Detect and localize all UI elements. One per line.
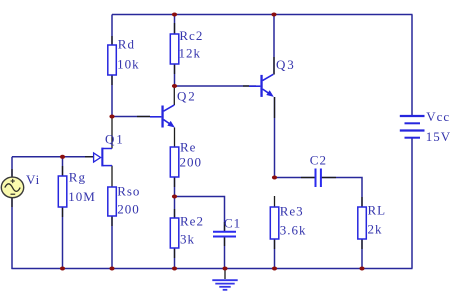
battery Vcc bbox=[400, 116, 425, 138]
svg-text:3.6k: 3.6k bbox=[280, 223, 307, 238]
wire Rd top pin bbox=[111, 15, 113, 46]
wire Q2 emitter to Re bbox=[174, 128, 176, 148]
resistor Rc2 bbox=[170, 34, 179, 64]
node Re C1 bbox=[172, 195, 177, 199]
node Q1 drain bbox=[109, 115, 114, 119]
svg-text:Rd: Rd bbox=[118, 36, 135, 51]
wire Rc2 top pin bbox=[174, 15, 176, 35]
wire Re bottom to node bbox=[174, 177, 176, 197]
capacitor C1 bbox=[213, 232, 236, 237]
svg-text:200: 200 bbox=[180, 155, 203, 170]
wire Re2 bottom pin bbox=[174, 248, 176, 269]
label RL value bbox=[368, 203, 387, 237]
wire Q3 emitter to node bbox=[274, 97, 276, 178]
label Re value bbox=[180, 140, 203, 170]
wire Re3 top pin bbox=[274, 196, 276, 207]
wire Rc2 bottom to node bbox=[174, 64, 176, 86]
label Rso value bbox=[117, 184, 140, 217]
wire Rg bottom pin bbox=[62, 207, 64, 269]
wire C2 right to RL bbox=[322, 178, 363, 208]
label Rg value bbox=[68, 170, 96, 205]
wire bottom rail bbox=[12, 268, 413, 270]
wire Re2 top pin bbox=[174, 197, 176, 219]
node bottom Rso bbox=[109, 267, 114, 271]
svg-text:10k: 10k bbox=[117, 57, 140, 72]
svg-text:Rc2: Rc2 bbox=[179, 28, 203, 43]
node top rail right bbox=[271, 13, 276, 17]
label Rc2 value bbox=[179, 28, 204, 61]
svg-text:C1: C1 bbox=[224, 216, 241, 231]
wire Q1 drain pin bbox=[111, 117, 113, 149]
wire RL bottom pin bbox=[361, 239, 363, 269]
wire Q1 source pin to Rso bbox=[111, 166, 113, 187]
node top rail left bbox=[172, 13, 177, 17]
svg-text:RL: RL bbox=[368, 203, 387, 218]
svg-text:3k: 3k bbox=[180, 232, 195, 247]
AC source Vi bbox=[1, 177, 23, 198]
transistor Q2 bbox=[150, 105, 175, 128]
resistor Rg bbox=[58, 176, 67, 207]
resistor Rso bbox=[108, 187, 117, 216]
node Rc2 Q2 bbox=[172, 84, 177, 88]
wire right rail upper bbox=[411, 15, 413, 117]
svg-text:Vi: Vi bbox=[26, 172, 40, 187]
wire Rg top pin bbox=[62, 157, 64, 176]
wire Q2 collector pin bbox=[173, 86, 175, 105]
transistor Q3 bbox=[249, 74, 274, 97]
wire Q3 collector to top rail bbox=[273, 15, 275, 75]
label Re2 value bbox=[180, 214, 204, 247]
svg-text:200: 200 bbox=[117, 202, 140, 217]
svg-text:Q3: Q3 bbox=[276, 57, 296, 72]
resistor Rd bbox=[108, 45, 117, 75]
resistor Re3 bbox=[270, 207, 279, 239]
label Vcc value bbox=[426, 109, 450, 144]
wire Rd bottom to node bbox=[111, 75, 113, 117]
node bottom RL bbox=[359, 267, 364, 271]
svg-text:12k: 12k bbox=[179, 46, 202, 61]
node Q3 emitter bbox=[272, 176, 277, 180]
node bottom ground bbox=[222, 267, 227, 271]
svg-text:Q2: Q2 bbox=[177, 89, 197, 104]
wire C1 bottom pin bbox=[224, 237, 226, 269]
wire gate line bbox=[12, 156, 94, 158]
node gate Rg bbox=[60, 155, 65, 159]
svg-text:10M: 10M bbox=[68, 189, 96, 204]
svg-text:15V: 15V bbox=[426, 129, 450, 144]
ground bbox=[212, 269, 237, 290]
label Rd value bbox=[117, 36, 140, 71]
svg-text:Re3: Re3 bbox=[280, 204, 304, 219]
svg-text:Rso: Rso bbox=[117, 184, 140, 199]
wire node to Q2 base bbox=[112, 116, 150, 118]
svg-text:C2: C2 bbox=[310, 153, 327, 168]
svg-text:2k: 2k bbox=[368, 222, 383, 237]
resistor Re bbox=[170, 147, 179, 177]
node bottom Re2 bbox=[172, 267, 177, 271]
JFET Q1 bbox=[94, 148, 112, 167]
resistor Re2 bbox=[170, 218, 179, 248]
wire Vi top lead bbox=[11, 157, 13, 177]
svg-text:Rg: Rg bbox=[69, 170, 86, 185]
wire Re3 bottom pin bbox=[274, 239, 276, 269]
svg-text:Re: Re bbox=[180, 140, 196, 155]
wire node to Q3 base bbox=[175, 85, 257, 87]
node bottom Re3 bbox=[272, 267, 277, 271]
wire node to C1 bbox=[175, 197, 225, 232]
svg-text:Re2: Re2 bbox=[180, 214, 204, 229]
wire node to C2 left bbox=[275, 177, 315, 179]
wire right rail lower bbox=[411, 138, 413, 269]
capacitor C2 bbox=[316, 169, 321, 188]
wire Rso bottom pin bbox=[111, 216, 113, 269]
label Re3 value bbox=[280, 204, 307, 238]
node bottom Rg bbox=[60, 267, 65, 271]
svg-text:Q1: Q1 bbox=[105, 132, 125, 147]
wire top rail bbox=[112, 14, 413, 16]
wire Vi bottom lead bbox=[11, 198, 13, 269]
resistor RL bbox=[358, 207, 367, 239]
svg-text:Vcc: Vcc bbox=[426, 109, 450, 124]
